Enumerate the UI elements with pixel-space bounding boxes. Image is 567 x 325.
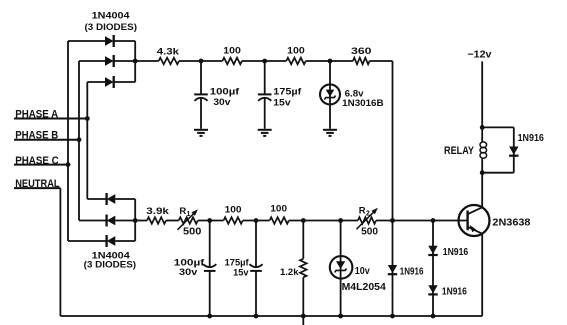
wire PHASE B [14,139,79,141]
potentiometer R2 500 [358,217,376,224]
wire upper rail to 360 resistor [306,60,353,62]
capacitor C2 175uf lead upper [264,61,266,94]
label 100 upper-left [223,46,241,57]
wire transistor to bottom rail [481,234,483,316]
svg-text:RELAY: RELAY [444,145,475,157]
zener VR2 symbol [335,261,347,272]
label R2 [359,205,370,217]
diode string lead [432,221,434,317]
wire lower diode row 2 anode to common [115,220,135,222]
svg-text:1N916: 1N916 [400,266,424,277]
svg-text:100: 100 [270,204,287,215]
label 175uf lower [225,257,250,268]
potentiometer R1 arrow [178,209,198,229]
wire R2 to transistor base [376,220,468,222]
wire upper diode row 3 cathode to common [114,81,136,83]
label 100uf lower [174,257,205,268]
diode CR7 1N916 lead [392,221,394,317]
label 360 [351,46,372,57]
diode CR4 1N4004 [107,193,116,205]
label RELAY [444,145,475,157]
resistor 1.2k body [300,259,307,278]
node upper 1 junction dot [199,59,204,64]
wire upper diode row 1 anode stub [68,40,105,42]
label (3 DIODES) upper bank [85,22,138,33]
label PHASE A [15,109,58,121]
capacitor C2 lead to ground [264,97,266,129]
svg-text:−12v: −12v [467,49,492,60]
wire relay diode branch vertical [513,127,515,172]
diode CR1 1N4004 [105,35,114,47]
wire upper diode row 1 cathode to common [114,40,136,42]
wire phase C bus vertical [67,41,69,241]
label 1N3016B [342,97,384,108]
svg-text:175µf: 175µf [273,86,302,97]
transistor Q1 collector [468,225,483,234]
label R1 [179,206,190,218]
capacitor C4 lead lower [255,271,257,316]
node bottom rail 1.2k dot [301,314,306,319]
svg-text:30v: 30v [213,97,231,108]
resistor 1.2k leads [302,221,304,317]
wire lower diode row 3 cathode stub [68,240,107,242]
transistor Q1 base bar [466,211,468,231]
svg-text:(3 DIODES): (3 DIODES) [84,260,136,271]
diode CR10 1N916 across relay [509,147,518,156]
zener VR1 lead and circle [320,61,340,129]
node upper diode bank common junction dot [133,59,138,64]
wire relay node to transistor [481,173,483,208]
label PHASE B [15,129,58,141]
label 30v lower [179,267,198,278]
wire NEUTRAL horizontal [14,187,60,189]
capacitor C1 lead to ground [200,97,202,129]
label 1N4004 (upper bank) [92,11,131,22]
svg-text:M4L2054: M4L2054 [342,282,387,293]
resistor 360 [353,58,370,65]
label 10v [355,266,370,277]
node zener M4L2054 top junction dot [338,218,343,223]
svg-text:(3 DIODES): (3 DIODES) [85,22,138,33]
label 1N916 (CR8) [443,247,469,258]
label 15v upper [273,98,291,109]
node bottom rail zener dot [338,314,343,319]
node relay bottom junction dot [480,170,485,175]
wire upper diode bank common vertical [134,41,136,82]
label 175uf upper [273,86,302,97]
label (3 DIODES) lower bank [84,260,136,271]
potentiometer R2 arrow [357,208,378,229]
label PHASE C [15,155,59,167]
node lower diode bank common junction dot [133,218,138,223]
svg-text:100: 100 [287,46,305,57]
label 1N916 (CR7) [400,266,424,277]
wire upper diode row 2 anode stub [79,60,105,62]
zener VR1 symbol [324,90,335,100]
node bottom rail diode string dot [431,314,436,319]
label 30v upper [213,97,231,108]
svg-text:10v: 10v [355,266,370,277]
label 1N916 (relay diode) [518,133,545,144]
potentiometer R1 500 [179,217,198,224]
node R2 output junction dot [390,218,395,223]
svg-text:1N4004: 1N4004 [92,11,131,22]
node bottom rail C4 dot [254,314,259,319]
svg-text:100: 100 [225,204,242,215]
node 1.2k top junction dot [301,218,306,223]
transistor Q1 emitter [468,207,483,214]
resistor 4.3k [159,58,179,65]
wire upper rail right end [370,60,393,62]
resistor 100 lower-right [270,217,289,224]
wire stub below bottom rail [302,316,304,325]
resistor 100 lower-left [224,217,243,224]
wire relay diode branch bottom [482,172,514,174]
wire lower diode row 1 cathode stub [87,198,107,200]
node PHASE B junction dot [77,137,82,142]
label M4L2054 [342,282,387,293]
diode CR7 1N916 [388,265,397,274]
node PHASE C junction dot [66,162,71,167]
capacitor C1 100uf lead upper [200,61,202,94]
wire R1 to first lower 100 resistor [198,220,224,222]
svg-text:1N3016B: 1N3016B [342,97,384,108]
capacitor C3 100uf plates [203,264,216,271]
svg-text:1N916: 1N916 [518,133,545,144]
resistor 3.9k [147,217,166,224]
node relay top junction dot [480,125,485,130]
wire upper rail 4.3k to first 100 resistor [179,60,222,62]
label NEUTRAL [15,178,60,190]
node lower 1 junction dot [207,218,212,223]
svg-text:15v: 15v [233,267,249,278]
wire between 3.9k and R1 [166,220,179,222]
label 6.8v [345,87,365,98]
wire lower rail to R2 [289,220,358,222]
node upper 2 junction dot [262,59,267,64]
wire lower diode row 3 anode to common [115,240,135,242]
zener VR2 M4L2054 lead and circle [330,221,353,317]
wire lower diode row 2 cathode stub [79,220,107,222]
svg-text:500: 500 [361,226,378,237]
label 100 upper-right [287,46,305,57]
svg-text:3.9k: 3.9k [146,205,170,216]
wire upper rail between 100 resistors [242,60,286,62]
node bottom rail CR7 dot [390,314,395,319]
label -12v supply [467,49,492,60]
capacitor C2 175uf plates [258,94,272,100]
wire lower rail to 3.9k [135,220,147,222]
wire lower diode row 1 anode to common [115,198,135,200]
svg-text:1.2k: 1.2k [280,267,299,278]
node lower 2 junction dot [254,218,259,223]
svg-text:500: 500 [183,226,202,237]
capacitor C3 100uf lead upper [209,221,211,267]
capacitor C4 175uf plates [249,264,262,271]
wire phase A bus vertical [86,82,88,199]
svg-text:360: 360 [351,46,372,57]
label 4.3k [157,47,180,57]
diode CR8 1N916 [428,246,437,255]
relay coil K1 [480,142,487,158]
label 1N916 (CR9) [442,286,467,297]
wire lower diode bank common vertical [134,199,136,241]
wire PHASE A [14,118,87,120]
node bottom rail C3 dot [207,314,212,319]
wire upper diode row 2 cathode to common [114,60,136,62]
label 100uf upper [210,87,240,98]
label 15v lower [233,267,249,278]
capacitor C4 175uf lead upper [255,221,257,267]
svg-text:1N916: 1N916 [442,286,467,297]
node PHASE A junction dot [85,116,90,121]
wire upper diode row 3 anode stub [87,81,105,83]
ground under C1 [194,130,208,136]
diode CR5 1N4004 [107,215,116,227]
transistor Q1 2N3638 circle [459,205,490,236]
label 100 lower-right [270,204,287,215]
wire NEUTRAL vertical down left side [59,188,61,316]
svg-text:1N916: 1N916 [443,247,469,258]
wire relay top lead [481,127,483,141]
svg-text:30v: 30v [179,267,198,278]
diode CR6 1N4004 [107,235,116,247]
diode CR9 1N916 [428,285,437,294]
svg-text:15v: 15v [273,98,291,109]
wire relay bottom lead [481,158,483,172]
wire bottom rail [60,315,482,317]
wire -12v to relay node [481,61,483,127]
wire PHASE C [14,164,68,166]
node diode string top junction dot [431,218,436,223]
label 100 lower-left [225,204,242,215]
ground under VR1 [323,130,337,136]
resistor 100 upper-right [286,58,305,65]
label 1N4004 (lower bank) [92,251,131,262]
diode CR2 1N4004 [105,55,114,67]
node upper 3 junction dot [328,59,333,64]
label 2N3638 [492,218,530,229]
resistor 100 upper-left [222,58,242,65]
wire phase B bus vertical [78,61,80,221]
svg-text:2N3638: 2N3638 [492,218,530,229]
diode CR3 1N4004 [105,76,114,88]
label 3.9k [146,205,170,216]
wire relay diode branch top [482,126,514,128]
wire upper rail segment from diode bank common node to resistor 4.3k [135,60,158,62]
capacitor C3 lead lower [209,271,211,316]
svg-text:100: 100 [223,46,241,57]
label 500 under R1 [183,226,202,237]
wire lower rail between 100 resistors [243,220,270,222]
wire vertical from upper rail down to lower rail [392,61,394,221]
label 1.2k [280,267,299,278]
svg-text:4.3k: 4.3k [157,47,180,57]
label 500 under R2 [361,226,378,237]
capacitor C1 100uf plates [194,94,208,100]
ground under C2 [258,130,272,136]
